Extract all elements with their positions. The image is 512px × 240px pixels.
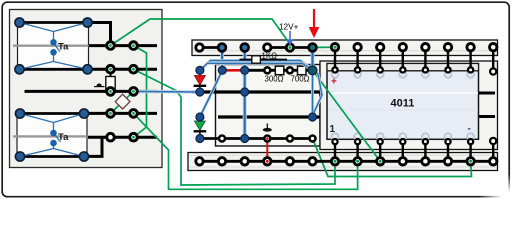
blue vertical 12V dot to pin1 node (311, 70, 314, 117)
IC 4011 body (327, 64, 479, 140)
green wire from connector B2 down right side (134, 46, 147, 127)
row 70 holes (264, 67, 293, 73)
relay module Ta (upper) (13, 18, 92, 74)
wire row A (module1 top to connector column) (88, 23, 111, 46)
blue vertical from hole3 (243, 48, 247, 139)
resistor 700 ohm (298, 66, 307, 75)
wire jog module2 bottom to row F (87, 137, 102, 156)
blue wire from panel row D to diode column (134, 90, 200, 94)
thick black row y=92 (192, 90, 320, 93)
bottom bus strip (188, 153, 498, 171)
capacitor symbol above hole (263, 124, 272, 132)
blue vertical from hole2 (220, 48, 224, 71)
blue wire upper horizontal (200, 61, 313, 71)
wire row D (25, 90, 158, 93)
green wire through diode diamond (111, 91, 134, 113)
diode D1 red (194, 70, 207, 92)
svg-text:12V+: 12V+ (279, 23, 299, 32)
diode diamond (on green diagonal) (115, 94, 130, 109)
junction dots middle (196, 66, 204, 74)
wire row E (87, 112, 157, 115)
green diagonal to outer bottom run (134, 113, 358, 189)
svg-text:4011: 4011 (391, 98, 415, 110)
blue wire lower horizontal (208, 63, 323, 117)
red wire to bottom strip (266, 140, 268, 161)
thick black row y=117 (218, 115, 320, 118)
black row y=138.5 (200, 137, 313, 140)
top strip black links (200, 46, 223, 49)
diode D2 green (194, 117, 207, 139)
svg-text:1: 1 (330, 124, 336, 135)
green link on top strip (313, 46, 336, 48)
green long diagonal to pin 8 area (313, 70, 381, 161)
green wire mid bottom run (313, 139, 472, 177)
left relay panel (10, 10, 163, 168)
bottom strip continuous wire (200, 160, 494, 163)
ghost socket rings on IC (332, 71, 474, 140)
svg-text:+: + (331, 77, 337, 88)
right IC socket block (320, 61, 498, 150)
capacitor symbol left panel (94, 83, 105, 86)
green branch to connector F2 (134, 127, 147, 137)
blue diagonal to green diode (200, 70, 222, 117)
pin lower rings (under IC edge) (332, 67, 496, 144)
svg-text:Ta: Ta (58, 132, 69, 143)
red arrow (309, 9, 320, 38)
top bus strip (192, 40, 498, 56)
green stub connector D2 (134, 90, 159, 93)
wire row F (88, 136, 157, 139)
svg-text:700Ω: 700Ω (291, 75, 310, 84)
svg-text:-: - (468, 124, 471, 135)
IC right side stubs (479, 92, 495, 95)
blue vertical 12V column (311, 49, 315, 70)
row 138 holes (219, 136, 316, 142)
green wire connector C2 to inner bottom run (134, 69, 336, 185)
resistor (vertical, left panel) (106, 69, 115, 92)
svg-text:1KΩ: 1KΩ (262, 52, 278, 61)
red wire row70 (222, 69, 245, 72)
green wire 12V+ feed (111, 19, 290, 48)
black wire row70 with 300/700 resistors (245, 69, 313, 72)
resistor 1K (240, 56, 288, 63)
blue arrow 12V pointer (287, 31, 293, 46)
relay module Ta (lower) (13, 109, 89, 161)
svg-text:Ta: Ta (58, 42, 69, 53)
wire row B (88, 44, 157, 47)
wire row C (88, 68, 157, 71)
middle component box (216, 65, 321, 147)
svg-text:300Ω: 300Ω (265, 75, 284, 84)
resistor 300 ohm (275, 66, 284, 75)
